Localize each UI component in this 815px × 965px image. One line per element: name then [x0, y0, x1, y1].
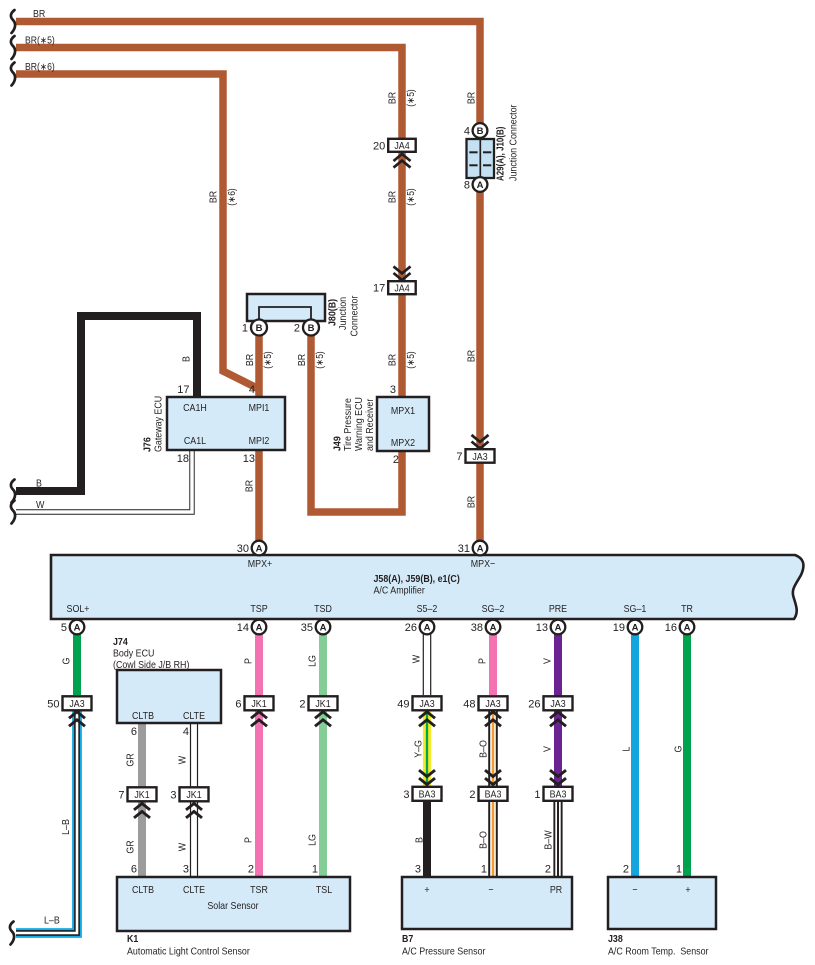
svg-text:GR: GR	[126, 753, 137, 766]
svg-text:JK1: JK1	[134, 790, 150, 801]
svg-text:1: 1	[676, 864, 682, 876]
svg-text:BR: BR	[297, 354, 308, 366]
svg-text:V: V	[543, 746, 554, 752]
svg-text:A/C Amplifier: A/C Amplifier	[374, 586, 426, 597]
svg-text:4: 4	[249, 384, 255, 396]
svg-text:49: 49	[397, 698, 409, 710]
svg-text:B: B	[36, 479, 42, 490]
svg-text:G: G	[674, 745, 685, 752]
svg-text:Tire Pressure: Tire Pressure	[343, 398, 354, 451]
svg-text:J80(B): J80(B)	[328, 299, 339, 326]
svg-text:CLTE: CLTE	[183, 885, 205, 896]
svg-text:A/C Room Temp. Sensor: A/C Room Temp. Sensor	[608, 947, 709, 958]
svg-text:TSL: TSL	[316, 885, 333, 896]
svg-text:4: 4	[183, 726, 189, 738]
svg-text:A: A	[632, 622, 639, 633]
svg-text:BR(∗6): BR(∗6)	[25, 62, 55, 73]
svg-text:Warning ECU: Warning ECU	[354, 397, 365, 451]
svg-text:GR: GR	[126, 840, 137, 853]
svg-text:(∗5): (∗5)	[263, 351, 274, 369]
svg-text:L–B: L–B	[61, 819, 72, 835]
svg-text:TSD: TSD	[314, 604, 332, 615]
svg-text:BR: BR	[388, 92, 399, 104]
svg-text:A29(A), J10(B): A29(A), J10(B)	[496, 127, 507, 181]
svg-text:35: 35	[301, 622, 313, 634]
svg-text:A: A	[477, 180, 484, 191]
svg-text:JA3: JA3	[550, 699, 566, 710]
svg-text:SOL+: SOL+	[67, 604, 90, 615]
svg-text:Body ECU: Body ECU	[113, 649, 154, 660]
svg-text:LG: LG	[308, 655, 319, 667]
svg-text:JA3: JA3	[485, 699, 501, 710]
svg-text:A: A	[424, 622, 431, 633]
svg-text:A: A	[74, 622, 81, 633]
svg-text:26: 26	[405, 622, 417, 634]
svg-text:K1: K1	[127, 934, 139, 945]
svg-text:A: A	[684, 622, 691, 633]
svg-text:2: 2	[623, 864, 629, 876]
svg-text:P: P	[244, 658, 255, 664]
svg-text:Automatic Light Control Sensor: Automatic Light Control Sensor	[127, 947, 250, 958]
svg-text:PR: PR	[550, 885, 562, 896]
svg-text:2: 2	[294, 322, 300, 334]
svg-text:B: B	[415, 837, 426, 843]
svg-text:B–O: B–O	[479, 831, 490, 849]
svg-text:+: +	[685, 885, 690, 896]
svg-text:−: −	[632, 885, 637, 896]
svg-text:BA3: BA3	[419, 790, 436, 801]
svg-text:J74: J74	[113, 637, 128, 648]
svg-text:7: 7	[456, 451, 462, 463]
svg-text:2: 2	[469, 789, 475, 801]
svg-text:L: L	[622, 746, 633, 751]
svg-text:TR: TR	[681, 604, 693, 615]
svg-text:TSP: TSP	[250, 604, 267, 615]
svg-text:A: A	[555, 622, 562, 633]
svg-text:BR(∗5): BR(∗5)	[25, 36, 55, 47]
svg-text:W: W	[412, 654, 423, 663]
svg-text:4: 4	[464, 125, 470, 137]
svg-text:L–B: L–B	[44, 916, 60, 927]
svg-text:48: 48	[463, 698, 475, 710]
svg-text:BR: BR	[33, 9, 45, 20]
svg-text:31: 31	[458, 543, 470, 555]
svg-text:MPX−: MPX−	[471, 559, 495, 570]
svg-text:18: 18	[177, 453, 189, 465]
svg-text:JK1: JK1	[186, 790, 202, 801]
svg-text:LG: LG	[308, 834, 319, 846]
svg-text:Junction: Junction	[338, 297, 349, 330]
svg-text:2: 2	[545, 864, 551, 876]
svg-text:5: 5	[61, 622, 67, 634]
svg-text:14: 14	[237, 622, 249, 634]
svg-text:1: 1	[242, 322, 248, 334]
svg-text:JA4: JA4	[394, 141, 410, 152]
svg-text:B7: B7	[402, 934, 414, 945]
svg-text:JA3: JA3	[69, 699, 85, 710]
svg-text:BR: BR	[467, 496, 478, 508]
svg-text:2: 2	[299, 698, 305, 710]
svg-text:V: V	[543, 658, 554, 664]
svg-text:6: 6	[131, 864, 137, 876]
svg-text:BR: BR	[388, 354, 399, 366]
svg-text:PRE: PRE	[549, 604, 567, 615]
svg-text:(∗5): (∗5)	[406, 351, 417, 369]
svg-text:A: A	[320, 622, 327, 633]
svg-text:2: 2	[393, 454, 399, 466]
svg-text:BR: BR	[245, 354, 256, 366]
svg-text:(∗6): (∗6)	[227, 188, 238, 206]
svg-text:TSR: TSR	[250, 885, 268, 896]
svg-text:CA1L: CA1L	[184, 436, 206, 447]
svg-text:JA3: JA3	[419, 699, 435, 710]
svg-text:Junction Connector: Junction Connector	[509, 104, 520, 181]
svg-text:MPI1: MPI1	[249, 403, 270, 414]
svg-text:BR: BR	[467, 350, 478, 362]
svg-text:SG–2: SG–2	[482, 604, 505, 615]
svg-text:BA3: BA3	[485, 790, 502, 801]
svg-text:BR: BR	[467, 92, 478, 104]
svg-text:Connector: Connector	[350, 295, 361, 336]
svg-text:A: A	[490, 622, 497, 633]
svg-text:W: W	[178, 755, 189, 764]
svg-text:B: B	[256, 323, 263, 334]
svg-text:W: W	[178, 842, 189, 851]
svg-text:A: A	[256, 622, 263, 633]
svg-text:JK1: JK1	[315, 699, 331, 710]
svg-text:13: 13	[536, 622, 548, 634]
svg-text:1: 1	[481, 864, 487, 876]
svg-text:30: 30	[237, 543, 249, 555]
svg-text:BR: BR	[209, 191, 220, 203]
svg-text:P: P	[244, 837, 255, 843]
svg-text:JA4: JA4	[394, 284, 410, 295]
svg-text:3: 3	[170, 789, 176, 801]
svg-text:W: W	[36, 500, 45, 511]
svg-text:Y–G: Y–G	[414, 740, 425, 758]
svg-text:13: 13	[243, 453, 255, 465]
svg-text:MPI2: MPI2	[249, 436, 270, 447]
svg-text:3: 3	[403, 789, 409, 801]
svg-text:(∗5): (∗5)	[406, 89, 417, 107]
svg-text:2: 2	[248, 864, 254, 876]
svg-text:B: B	[477, 126, 484, 137]
svg-text:19: 19	[613, 622, 625, 634]
svg-text:P: P	[478, 658, 489, 664]
svg-text:B: B	[308, 323, 315, 334]
svg-text:SG–1: SG–1	[624, 604, 647, 615]
svg-text:6: 6	[235, 698, 241, 710]
svg-text:CLTE: CLTE	[183, 711, 205, 722]
svg-text:BR: BR	[388, 191, 399, 203]
svg-text:JA3: JA3	[472, 452, 488, 463]
svg-text:(Cowl Side J/B RH): (Cowl Side J/B RH)	[113, 660, 189, 671]
svg-text:J49: J49	[333, 436, 344, 451]
svg-text:20: 20	[373, 140, 385, 152]
svg-text:6: 6	[131, 726, 137, 738]
svg-text:38: 38	[471, 622, 483, 634]
svg-text:7: 7	[118, 789, 124, 801]
svg-text:J38: J38	[608, 934, 623, 945]
svg-text:A: A	[256, 543, 263, 554]
svg-text:and Receiver: and Receiver	[365, 398, 376, 451]
svg-text:17: 17	[177, 384, 189, 396]
svg-text:17: 17	[373, 283, 385, 295]
svg-text:26: 26	[528, 698, 540, 710]
svg-text:3: 3	[183, 864, 189, 876]
svg-text:G: G	[62, 657, 73, 664]
svg-text:MPX2: MPX2	[391, 438, 415, 449]
svg-text:S5–2: S5–2	[417, 604, 438, 615]
svg-text:CLTB: CLTB	[132, 711, 154, 722]
svg-text:BR: BR	[245, 480, 256, 492]
svg-text:B–W: B–W	[544, 830, 555, 850]
svg-text:MPX1: MPX1	[391, 406, 415, 417]
svg-text:16: 16	[665, 622, 677, 634]
svg-text:+: +	[424, 885, 429, 896]
svg-text:50: 50	[47, 698, 59, 710]
svg-text:1: 1	[534, 789, 540, 801]
svg-text:3: 3	[390, 384, 396, 396]
svg-text:J58(A), J59(B), e1(C): J58(A), J59(B), e1(C)	[374, 574, 460, 585]
svg-text:8: 8	[464, 179, 470, 191]
svg-text:BA3: BA3	[550, 790, 567, 801]
svg-text:Solar Sensor: Solar Sensor	[207, 901, 259, 912]
svg-text:3: 3	[415, 864, 421, 876]
svg-text:−: −	[488, 885, 493, 896]
svg-text:(∗5): (∗5)	[406, 188, 417, 206]
svg-text:B: B	[182, 356, 193, 362]
svg-text:A/C Pressure Sensor: A/C Pressure Sensor	[402, 947, 486, 958]
svg-text:B–O: B–O	[479, 740, 490, 758]
svg-text:J76: J76	[143, 437, 154, 452]
svg-text:CA1H: CA1H	[183, 403, 207, 414]
svg-text:MPX+: MPX+	[248, 559, 272, 570]
svg-text:1: 1	[312, 864, 318, 876]
svg-text:(∗5): (∗5)	[315, 351, 326, 369]
svg-text:A: A	[477, 543, 484, 554]
svg-text:CLTB: CLTB	[132, 885, 154, 896]
svg-text:Gateway ECU: Gateway ECU	[154, 396, 165, 452]
svg-text:JK1: JK1	[251, 699, 267, 710]
